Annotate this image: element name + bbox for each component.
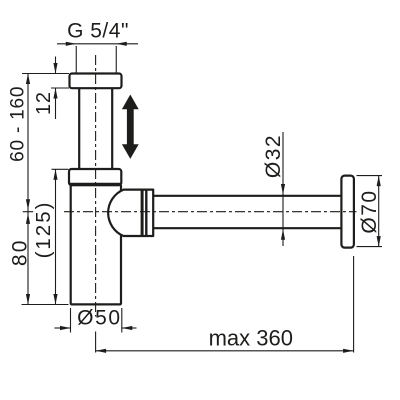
- outlet pipe top: [153, 195, 342, 197]
- diameter 32 leader: [282, 132, 284, 246]
- 60-160 / 80 dimension line: [27, 74, 29, 305]
- svg-text:(125): (125): [32, 201, 55, 259]
- lower flange nut: [69, 169, 121, 185]
- elbow dome connector: [108, 190, 153, 236]
- compression ring: [145, 190, 147, 236]
- svg-text:Ø70: Ø70: [358, 189, 381, 233]
- centerline horizontal: [23, 211, 34, 213]
- svg-text:60 - 160: 60 - 160: [8, 86, 29, 162]
- centerline vertical: [95, 55, 97, 317]
- upper flange nut: [70, 74, 122, 89]
- svg-text:Ø50: Ø50: [77, 307, 122, 330]
- svg-text:max 360: max 360: [209, 325, 293, 350]
- wall flange: [341, 176, 354, 248]
- upper pipe right: [111, 88, 113, 170]
- lower flange thick joint line: [69, 183, 121, 185]
- trap body cup: [71, 185, 121, 304]
- diameter 70 dimension: [357, 176, 383, 247]
- diameter 50 dimension: [55, 308, 137, 333]
- upper pipe left: [78, 88, 80, 170]
- svg-text:Ø32: Ø32: [262, 134, 285, 178]
- svg-text:12: 12: [33, 91, 55, 115]
- bold adjust arrow: [122, 95, 139, 159]
- svg-text:G 5/4": G 5/4": [67, 20, 129, 43]
- (125) dimension: [22, 169, 69, 304]
- 12 dimension: [22, 57, 69, 120]
- outlet pipe bottom: [153, 227, 342, 229]
- max 360 dimension: [96, 256, 354, 353]
- G 5/4 dimension: [57, 44, 138, 73]
- svg-text:80: 80: [8, 238, 31, 266]
- nut thick edge: [141, 190, 144, 236]
